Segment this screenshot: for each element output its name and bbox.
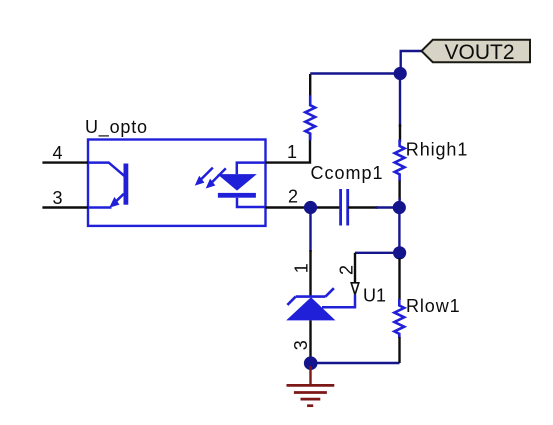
LED light arrow 1 line	[199, 168, 213, 182]
U1 cathode bar left tick	[287, 297, 295, 305]
U1 pin 1 (cathode) vertical line	[309, 250, 311, 297]
wire from top resistor to VOUT2 junction	[310, 72, 400, 74]
phototransistor emitter line	[112, 194, 124, 205]
U1 pin 3 (anode) vertical line	[309, 320, 311, 358]
svg-text:1: 1	[287, 142, 297, 162]
svg-text:4: 4	[53, 143, 63, 163]
junction dot at ref node	[393, 246, 406, 259]
svg-text:Rlow1: Rlow1	[406, 296, 461, 316]
LED cathode bar	[218, 193, 256, 198]
pin 4 of U_opto (wire stub)	[42, 161, 88, 163]
capacitor Ccomp1 right pin	[348, 206, 378, 208]
pin 2 of U_opto wire to junction	[266, 206, 311, 208]
ground stem	[309, 366, 311, 385]
resistor Rhigh1 upper pin / wire from junction	[399, 74, 401, 128]
capacitor Ccomp1 right plate	[346, 189, 349, 226]
phototransistor base bar	[124, 164, 129, 205]
ground bar 2	[294, 391, 327, 394]
capacitor Ccomp1 left pin	[311, 206, 341, 208]
wire stub to VOUT2 tag	[401, 51, 422, 74]
resistor Rlow1 lower pin	[398, 337, 400, 363]
svg-text:3: 3	[53, 188, 63, 208]
LED light arrow 2 line	[211, 168, 226, 183]
ground bar 4	[307, 404, 313, 407]
junction dot at opto pin 2 node	[304, 201, 317, 214]
resistor Rlow1 zigzag	[394, 299, 404, 338]
U1 cathode bar right tick	[326, 288, 334, 296]
LED light arrow 1 head	[195, 176, 205, 186]
net label tag VOUT2	[422, 40, 531, 62]
resistor Rhigh1 lower pin	[398, 181, 400, 201]
resistor Rlow1 upper pin	[398, 258, 400, 300]
svg-text:1: 1	[292, 263, 312, 273]
junction dot at VOUT2 node	[394, 67, 407, 80]
LED light arrow 2 head	[206, 179, 216, 189]
pin 1 of U_opto wire to resistor	[266, 134, 311, 163]
svg-text:3: 3	[291, 340, 311, 350]
svg-text:U1: U1	[363, 286, 386, 306]
bottom wire ground node to Rlow1	[311, 362, 400, 364]
U1 pin 2 input arrow (open)	[351, 283, 359, 295]
svg-text:2: 2	[337, 265, 357, 275]
ground bar 1	[287, 384, 335, 387]
LED bottom bracket	[237, 198, 266, 207]
phototransistor emitter arrowhead	[109, 197, 119, 208]
junction dot at divider mid node	[393, 201, 406, 214]
U1 anode triangle	[286, 297, 335, 320]
wire from Ccomp1 to right junction	[376, 206, 400, 208]
svg-text:Ccomp1: Ccomp1	[311, 163, 384, 183]
svg-text:Rhigh1: Rhigh1	[406, 139, 468, 159]
phototransistor emitter wire to pin 3	[88, 206, 112, 209]
junction dot at ground node	[304, 356, 318, 370]
resistor Rhigh1 zigzag	[395, 140, 405, 182]
wire ref node to U1 ref pin	[355, 252, 400, 254]
ground bar 3	[301, 398, 321, 401]
wire opto pin 2 node down to U1	[309, 208, 311, 253]
svg-text:U_opto: U_opto	[85, 117, 148, 138]
wire divider node down to ref node	[398, 208, 400, 253]
svg-text:2: 2	[288, 186, 298, 206]
LED anode triangle	[217, 174, 256, 191]
optocoupler U_opto body box	[88, 140, 266, 226]
LED top bracket	[237, 163, 266, 175]
resistor (top, unlabeled) upper pin	[309, 74, 311, 96]
capacitor Ccomp1 left plate	[339, 189, 342, 226]
shunt regulator U1 cathode bar	[296, 295, 326, 298]
U1 pin 2 (reference) vertical line	[354, 253, 356, 283]
pin 3 of U_opto (wire stub)	[42, 206, 88, 208]
svg-text:VOUT2: VOUT2	[445, 41, 515, 64]
resistor (top, unlabeled) zigzag	[305, 95, 315, 140]
U1 reference entry line	[322, 295, 355, 307]
phototransistor collector line	[88, 163, 124, 176]
